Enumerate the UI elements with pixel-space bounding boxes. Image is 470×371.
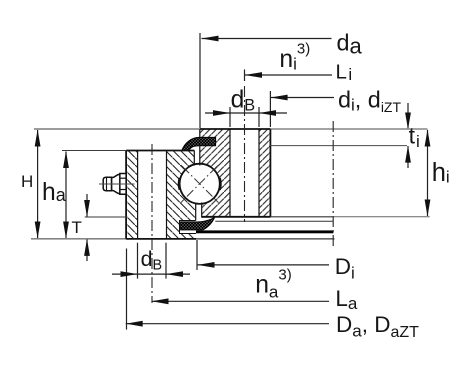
white cutout: bottom channel between rings (196, 196, 202, 217)
svg-text:H: H (21, 172, 33, 191)
white cutout: top channel between rings (194, 151, 200, 173)
h_a up/down (63, 151, 69, 168)
white cutout: ball pocket (180, 164, 220, 204)
svg-text:da: da (337, 30, 363, 59)
svg-text:Li: Li (336, 60, 353, 84)
D_a left tip (126, 321, 143, 327)
thin line above strip (215, 220, 333, 222)
L_i left tip (245, 72, 262, 78)
H up/down (35, 130, 41, 147)
t_i arrows vertical tails (407, 103, 409, 128)
h_i up/down (425, 130, 431, 147)
D_a (126, 323, 329, 325)
h_i (427, 130, 429, 216)
t_i up arrow (405, 146, 411, 163)
inner ring bottom extension right (270, 216, 333, 218)
d_B top outside arrows (213, 110, 230, 116)
horizontal structure/extension lines (31, 129, 430, 239)
white cutout: bolt hole inner ring (230, 128, 259, 219)
d_i (271, 97, 334, 99)
H (37, 130, 39, 238)
ball (180, 164, 220, 204)
outer ring top extension left (62, 150, 126, 152)
T arrows tails (86, 194, 88, 217)
d_B top (205, 112, 287, 114)
outer ring hatched body (126, 151, 196, 239)
L_a (152, 300, 330, 302)
axis dash-dot line (332, 121, 334, 246)
L_i (245, 74, 332, 76)
T outside arrows (84, 200, 90, 217)
white cutout: lower seal groove (180, 221, 197, 234)
t_i down arrow (405, 113, 411, 130)
bolt hole centerline outer (151, 144, 153, 303)
inner ring outline (200, 128, 271, 130)
d_a (202, 38, 332, 40)
bolt hole centerline inner (244, 86, 246, 222)
inner ring hatched body (200, 129, 271, 217)
arrow heads (35, 36, 431, 327)
D_i (198, 264, 330, 266)
white cutout: upper seal groove (200, 137, 216, 145)
d_i left tip (271, 95, 288, 101)
bottom line y=238.9 left + right (31, 238, 126, 240)
lower seal (181, 218, 215, 230)
svg-text:T: T (72, 218, 82, 237)
top line y=129 : H extension + ring top ext to right (34, 128, 200, 130)
L_a left tip (152, 298, 169, 304)
outer ring outline (126, 150, 194, 152)
h_a (65, 152, 67, 239)
T extension (85, 216, 127, 218)
grease nipple (103, 174, 126, 195)
t_i lower line (270, 145, 407, 147)
d_B bottom (112, 273, 190, 275)
ball centre cross (dash-dot diagonals) (181, 165, 219, 203)
D_i left tip (198, 262, 215, 268)
contact crescents left/right of ball (178, 178, 181, 190)
d_a left tip (202, 36, 219, 42)
white cutouts: bolt hole outer ring (138, 149, 167, 240)
ring outlines (126, 129, 270, 239)
upper seal (182, 137, 216, 150)
d_B bottom outside arrows (121, 271, 138, 277)
ZT strip thick black line (196, 230, 333, 233)
